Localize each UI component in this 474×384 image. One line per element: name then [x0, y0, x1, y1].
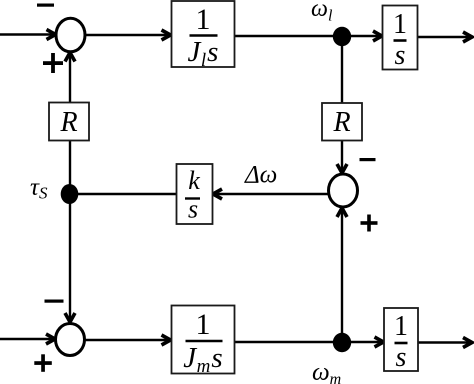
svg-text:ωl: ωl: [311, 0, 333, 25]
svg-text:k: k: [188, 166, 200, 195]
svg-text:1: 1: [196, 3, 211, 36]
svg-text:s: s: [188, 195, 198, 224]
svg-text:s: s: [395, 40, 406, 71]
svg-text:R: R: [332, 107, 350, 138]
svg-text:R: R: [59, 107, 77, 138]
svg-text:1: 1: [393, 9, 407, 40]
svg-text:1: 1: [196, 308, 211, 341]
svg-text:1: 1: [394, 311, 408, 342]
svg-text:s: s: [396, 342, 407, 373]
svg-text:ωm: ωm: [312, 359, 341, 384]
svg-text:τS: τS: [30, 174, 48, 203]
svg-text:Δω: Δω: [244, 162, 277, 189]
